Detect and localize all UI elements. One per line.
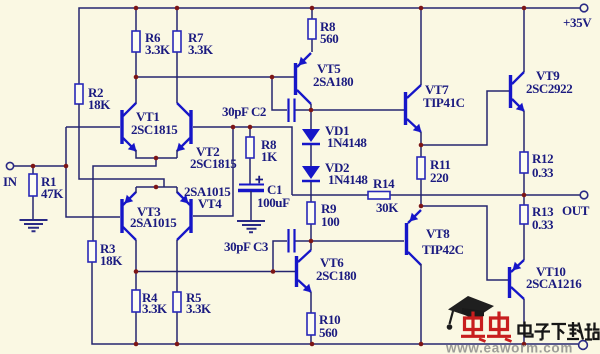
transistor VT9 bbox=[509, 68, 573, 112]
svg-text:2SC2922: 2SC2922 bbox=[526, 81, 572, 96]
svg-text:18K: 18K bbox=[100, 253, 123, 268]
transistor VT4 bbox=[177, 184, 231, 240]
junction dots feedback bbox=[231, 125, 253, 130]
watermark site name chars bbox=[519, 322, 600, 341]
wire IN net bbox=[14, 127, 121, 217]
svg-text:1K: 1K bbox=[261, 149, 278, 164]
transistor VT5 bbox=[294, 53, 353, 104]
svg-text:TIP42C: TIP42C bbox=[422, 242, 464, 257]
transistor VT10 bbox=[508, 260, 582, 299]
svg-text:560: 560 bbox=[319, 325, 337, 340]
resistor R3 bbox=[88, 241, 123, 268]
transistor VT6 bbox=[295, 250, 356, 293]
svg-text:30pF C3: 30pF C3 bbox=[224, 239, 269, 254]
wire VT6 collector node to VT8 base bbox=[311, 241, 404, 250]
wire VT1 collector to VT5 base bbox=[136, 77, 294, 104]
wire VT7 emitter to VT9 base bbox=[421, 91, 509, 157]
resistor R8 560 bbox=[308, 8, 338, 52]
wire PNP emitter bus bbox=[136, 187, 177, 193]
svg-text:IN: IN bbox=[3, 174, 18, 189]
wire R2 to PNP emitters bbox=[79, 104, 164, 187]
node bottom-right terminal bbox=[579, 341, 588, 350]
ground below R1 bbox=[20, 220, 48, 231]
wire bottom rail bbox=[92, 262, 578, 344]
capacitor C1 100uF bbox=[238, 176, 290, 220]
wire VT9 collector bbox=[523, 8, 525, 72]
node +35V terminal bbox=[563, 4, 592, 30]
node OUT terminal bbox=[562, 191, 590, 218]
resistor R10 bbox=[307, 292, 340, 344]
resistor R5 bbox=[173, 240, 212, 344]
resistor R6 bbox=[132, 8, 171, 77]
ground below C1 bbox=[237, 221, 265, 232]
wire OUT node bbox=[524, 194, 580, 196]
svg-text:0.33: 0.33 bbox=[532, 165, 554, 180]
svg-text:3.3K: 3.3K bbox=[145, 42, 171, 57]
junction dots VAS bbox=[309, 108, 527, 244]
svg-text:0.33: 0.33 bbox=[532, 217, 554, 232]
resistor R2 bbox=[75, 84, 111, 112]
resistor R9 bbox=[307, 201, 339, 241]
svg-text:560: 560 bbox=[320, 31, 338, 46]
svg-text:100: 100 bbox=[321, 214, 339, 229]
resistor R4 bbox=[132, 240, 168, 344]
resistor R12 bbox=[520, 111, 554, 195]
watermark graduation cap bbox=[447, 296, 494, 330]
capacitor C2 30pF bbox=[222, 77, 311, 122]
svg-text:2SA1015: 2SA1015 bbox=[184, 184, 231, 199]
svg-text:30pF C2: 30pF C2 bbox=[222, 104, 266, 119]
wire +35V top rail bbox=[79, 8, 580, 84]
wire VT5 collector to VT7 base bbox=[311, 104, 404, 129]
transistor VT3 bbox=[120, 192, 177, 240]
junction dots diff pairs bbox=[134, 75, 276, 274]
svg-text:VT8: VT8 bbox=[426, 226, 450, 241]
junction dots input bbox=[31, 164, 69, 169]
svg-text:3.3K: 3.3K bbox=[142, 301, 168, 316]
resistor R11 bbox=[417, 157, 450, 206]
svg-text:100uF: 100uF bbox=[257, 195, 290, 210]
wire NPN emitter bus to R3 bbox=[93, 150, 177, 241]
wire feedback OUT rail bbox=[292, 194, 524, 196]
svg-text:TIP41C: TIP41C bbox=[423, 95, 465, 110]
svg-text:220: 220 bbox=[430, 170, 448, 185]
transistor VT7 bbox=[404, 82, 465, 133]
resistor R1 bbox=[29, 174, 64, 219]
diode VD2 bbox=[302, 160, 368, 202]
junction dots top rail bbox=[134, 6, 527, 11]
wire VT7 collector bbox=[420, 8, 422, 85]
transistor VT2 bbox=[177, 103, 238, 171]
resistor R7 bbox=[173, 8, 214, 103]
diode VD1 bbox=[302, 123, 367, 166]
wire VT10 collector bbox=[523, 299, 525, 344]
svg-text:30K: 30K bbox=[376, 200, 399, 215]
svg-text:2SCA1216: 2SCA1216 bbox=[526, 276, 582, 291]
svg-text:18K: 18K bbox=[88, 97, 111, 112]
watermark red chong chars bbox=[461, 312, 512, 342]
svg-text:OUT: OUT bbox=[562, 203, 590, 218]
wire VT3 collector to VT6 base bbox=[136, 271, 295, 273]
wire VT8 emitter node to VT10 base bbox=[421, 206, 508, 280]
svg-text:2SA180: 2SA180 bbox=[313, 74, 353, 89]
node IN terminal bbox=[3, 162, 18, 189]
svg-text:R14: R14 bbox=[373, 176, 395, 191]
svg-text:www.eaworm.com: www.eaworm.com bbox=[445, 341, 573, 354]
transistor VT8 bbox=[405, 210, 464, 265]
svg-text:1N4148: 1N4148 bbox=[328, 172, 368, 187]
svg-text:3.3K: 3.3K bbox=[188, 42, 214, 57]
capacitor C3 30pF bbox=[224, 229, 311, 272]
resistor R13 bbox=[520, 195, 554, 260]
svg-text:R12: R12 bbox=[532, 151, 553, 166]
svg-text:2SC1815: 2SC1815 bbox=[190, 156, 237, 171]
svg-text:1N4148: 1N4148 bbox=[327, 135, 367, 150]
wire VT8 collector bbox=[420, 264, 422, 344]
wire VT2/VT4 base feedback node bbox=[193, 127, 292, 216]
svg-text:47K: 47K bbox=[41, 186, 64, 201]
junction dots bottom rail bbox=[134, 342, 527, 347]
svg-text:2SC1815: 2SC1815 bbox=[131, 122, 178, 137]
resistor R14 bbox=[368, 176, 399, 215]
svg-text:3.3K: 3.3K bbox=[186, 301, 212, 316]
resistor R8 feedback 1K bbox=[246, 127, 278, 184]
wire VT1 base bbox=[66, 126, 120, 128]
svg-text:2SC180: 2SC180 bbox=[316, 268, 356, 283]
svg-text:2SA1015: 2SA1015 bbox=[130, 215, 177, 230]
watermark url bbox=[445, 341, 573, 354]
transistor VT1 bbox=[120, 103, 178, 152]
svg-text:+35V: +35V bbox=[563, 15, 592, 30]
